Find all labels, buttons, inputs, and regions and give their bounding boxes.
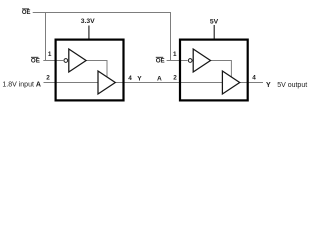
svg-text:3.3V: 3.3V [81, 18, 95, 25]
svg-text:OE: OE [22, 10, 31, 16]
svg-text:1: 1 [173, 51, 177, 58]
svg-text:4: 4 [252, 75, 256, 82]
svg-text:OE: OE [156, 57, 165, 64]
svg-text:Y: Y [266, 82, 271, 89]
svg-text:1: 1 [48, 51, 52, 58]
svg-text:4: 4 [128, 75, 132, 82]
svg-text:2: 2 [173, 75, 177, 82]
svg-text:1.8V input A: 1.8V input A [2, 82, 41, 89]
svg-text:A: A [157, 75, 162, 82]
svg-text:5V: 5V [210, 18, 219, 25]
svg-text:OE: OE [31, 57, 40, 64]
svg-text:Y: Y [137, 75, 142, 82]
svg-text:2: 2 [46, 74, 50, 81]
svg-text:5V output: 5V output [277, 82, 307, 89]
